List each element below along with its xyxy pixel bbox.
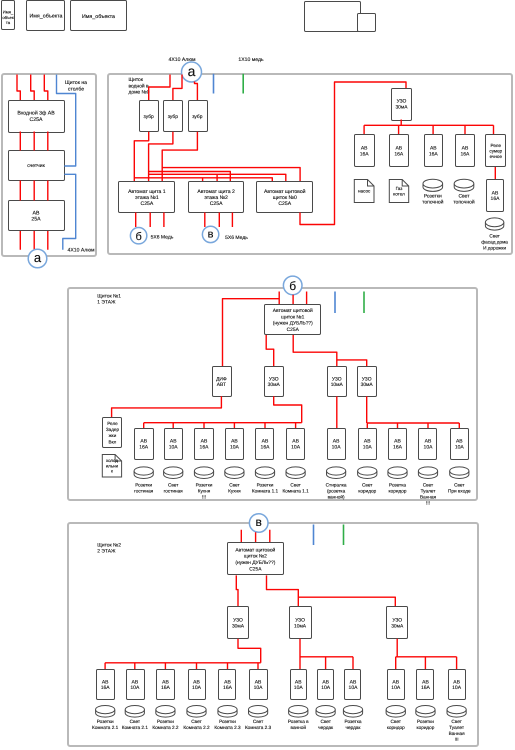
svg-text:10А: 10А <box>424 444 434 450</box>
load Розетки Комната 2.1 floor2 <box>92 706 119 731</box>
svg-text:Щиток №2: Щиток №2 <box>97 542 121 548</box>
load Розетки гостиная floor1 <box>134 467 154 494</box>
svg-text:в: в <box>208 228 214 240</box>
label: Щиток на столбе <box>65 80 87 93</box>
breaker АВ 16А свет топочной <box>456 135 475 167</box>
load Свет чердак floor2 <box>316 706 335 731</box>
label: Щиток №2 2 ЭТАЖ <box>97 542 121 554</box>
svg-text:Свет: Свет <box>253 719 264 724</box>
load Свет Комната 2.3 floor2 <box>245 706 272 731</box>
svg-text:Розетка: Розетка <box>389 483 406 488</box>
wire bus L2 a <box>149 172 231 182</box>
node в (feed to floor-2 panel) <box>202 226 218 242</box>
svg-text:топочной: топочной <box>453 200 475 206</box>
panel P4 enclosure (Щиток №2 2 ЭТАЖ) <box>68 523 478 746</box>
RCD УЗО 10мА floor1 <box>328 367 347 397</box>
svg-text:16А: 16А <box>139 444 149 450</box>
wire bus L3 top <box>162 168 300 182</box>
svg-text:30мА: 30мА <box>391 623 404 629</box>
breaker АВ 16А фасад <box>487 180 504 212</box>
svg-text:УЗО: УЗО <box>392 618 402 624</box>
svg-text:!!!: !!! <box>426 501 430 506</box>
svg-text:16А: 16А <box>261 444 271 450</box>
svg-text:Щиток: Щиток <box>129 77 144 83</box>
label: 4X10 Алюм cable P2 <box>169 57 196 63</box>
svg-text:ванной): ванной) <box>328 495 345 500</box>
node в (floor-2 panel input) <box>249 514 268 533</box>
wire bus L2 b <box>149 174 286 181</box>
svg-text:1 ЭТАЖ: 1 ЭТАЖ <box>97 300 116 306</box>
breaker АВ 10А floor1 #8 <box>359 429 377 460</box>
svg-text:УЗО: УЗО <box>295 618 305 624</box>
wire tap to ДИФ АВТ <box>223 299 280 367</box>
RCD УЗО 30мА house <box>392 89 412 121</box>
load Розетки Кухня !!! floor1 <box>194 467 213 500</box>
svg-text:Ванная: Ванная <box>420 495 437 500</box>
panel P2 enclosure (Щиток водной в доме №0) <box>108 74 512 254</box>
svg-text:!!!: !!! <box>455 737 459 742</box>
wire б to QF main floor1 <box>279 292 306 305</box>
load Розетки Комната 2.3 floor2 <box>214 706 241 731</box>
svg-text:Щиток №1: Щиток №1 <box>97 293 121 299</box>
svg-text:котел: котел <box>393 191 405 196</box>
svg-text:10А: 10А <box>363 444 373 450</box>
breaker АВ 16А floor2 #3 <box>157 670 175 700</box>
load Свет При входе floor1 <box>448 467 471 494</box>
svg-text:16А: 16А <box>421 685 431 691</box>
breaker АВ 10А floor1 #6 <box>287 429 305 460</box>
svg-text:10А: 10А <box>452 685 462 691</box>
svg-text:Кухня: Кухня <box>228 489 241 494</box>
svg-text:Комната 2.1: Комната 2.1 <box>92 725 119 730</box>
wire main floor2 to RCD2/RCD3 floor2 <box>267 575 396 606</box>
wire PE stub floor-2 <box>343 525 345 546</box>
breaker QF3 Автомат щитовой щиток №0 <box>257 182 313 213</box>
svg-text:(нужен ДУБЛЬ??): (нужен ДУБЛЬ??) <box>273 321 313 327</box>
svg-text:УЗО: УЗО <box>397 99 407 105</box>
wire RCD3 floor2 out bus right group <box>396 639 457 670</box>
svg-text:16А: 16А <box>393 444 403 450</box>
svg-text:10А: 10А <box>130 685 140 691</box>
title block small rectangle <box>358 14 376 32</box>
svg-text:Свет: Свет <box>454 483 465 488</box>
svg-text:доме №0: доме №0 <box>129 90 150 96</box>
svg-text:10А: 10А <box>254 685 264 691</box>
svg-text:10А: 10А <box>455 444 465 450</box>
relay Реле Задержки Вкл <box>103 418 122 448</box>
svg-text:Розетки: Розетки <box>424 193 442 199</box>
svg-text:Стиралка: Стиралка <box>326 483 347 488</box>
breaker QF2 Автомат щита 2 <box>189 182 244 213</box>
svg-text:фасад дома: фасад дома <box>481 240 508 245</box>
svg-text:30мА: 30мА <box>232 623 245 629</box>
svg-text:16А: 16А <box>360 151 370 157</box>
svg-text:10А: 10А <box>192 685 202 691</box>
wire phase L1 pole panel <box>17 75 20 250</box>
svg-text:гостиная: гостиная <box>164 489 184 494</box>
node б (feed to floor-1 panel) <box>130 228 146 244</box>
svg-text:Кухня: Кухня <box>198 489 211 494</box>
svg-text:30мА: 30мА <box>395 104 408 110</box>
breaker АВ 10А floor1 #4 <box>226 429 244 460</box>
svg-text:гостиная: гостиная <box>134 489 154 494</box>
svg-text:Свет: Свет <box>451 719 462 724</box>
svg-text:а: а <box>188 63 196 79</box>
svg-text:жки: жки <box>109 433 117 438</box>
breaker АВ 10А floor1 #2 <box>165 429 183 460</box>
wire RCD3 out bus floor1 right group <box>367 396 460 428</box>
svg-text:Свет: Свет <box>168 483 179 488</box>
svg-text:С25А: С25А <box>249 567 262 573</box>
svg-text:АВТ: АВТ <box>217 382 226 388</box>
wire main floor1 to RCD2/RCD3 <box>293 335 367 367</box>
wire RCD2 (УЗО10) to Стиралка breaker <box>336 396 338 428</box>
breaker АВ 16А насос <box>355 135 375 167</box>
svg-text:Имя_объекта: Имя_объекта <box>29 14 62 20</box>
wire main floor2 to RCD1 floor2 <box>236 575 238 606</box>
breaker АВ 10А floor1 #10 <box>419 429 437 460</box>
node a (house input) <box>182 62 202 82</box>
svg-text:к: к <box>111 468 113 473</box>
wire a to surge relay 1 <box>149 75 170 101</box>
svg-text:С25А: С25А <box>141 201 154 207</box>
svg-text:Комната 1.1: Комната 1.1 <box>252 489 279 494</box>
svg-text:Свет: Свет <box>229 483 240 488</box>
load Свет фасад дома И дорожки <box>481 218 508 251</box>
label: Щиток №1 1 ЭТАЖ <box>97 293 121 305</box>
surge relay V1 зубр <box>140 101 159 132</box>
svg-text:С25А: С25А <box>287 327 300 333</box>
panel P1 enclosure (Щиток на столбе) <box>2 74 96 256</box>
svg-text:16А: 16А <box>101 685 111 691</box>
relay Реле сумеречное <box>486 135 506 167</box>
svg-text:АВ: АВ <box>33 211 40 217</box>
svg-text:Туалет: Туалет <box>421 489 437 494</box>
load Розетка чердак floor2 <box>343 706 362 731</box>
svg-text:сумер: сумер <box>489 148 502 153</box>
breaker АВ 10А floor2 #8 <box>318 670 334 700</box>
surge relay V3 зубр <box>189 101 208 132</box>
svg-text:30мА: 30мА <box>361 382 374 388</box>
wire RCD house out bus <box>364 120 493 135</box>
label: 4X10 Алюм cable P1 <box>68 248 95 254</box>
breaker АВ 16А floor1 #3 <box>195 429 214 460</box>
svg-text:та: та <box>6 20 11 25</box>
breaker АВ 16А floor2 #5 <box>219 670 236 700</box>
breaker main floor2 Автомат щитовой щиток №2 <box>228 543 284 575</box>
legend box 2 (Имя_объекта) <box>27 1 65 31</box>
svg-text:Комната 2.2: Комната 2.2 <box>183 725 210 730</box>
svg-text:10А: 10А <box>332 444 342 450</box>
svg-text:насос: насос <box>358 189 371 194</box>
surge relay V2 зубр <box>164 101 183 132</box>
svg-text:чердак: чердак <box>346 725 362 730</box>
svg-text:УЗО: УЗО <box>233 618 243 624</box>
svg-text:!!!: !!! <box>202 495 206 500</box>
svg-text:10А: 10А <box>391 685 401 691</box>
svg-text:Свет: Свет <box>391 719 402 724</box>
svg-text:столбе: столбе <box>68 86 84 92</box>
breaker АВ 16А floor2 #1 <box>97 670 115 700</box>
svg-text:Комната 2.1: Комната 2.1 <box>122 725 149 730</box>
wire a to surge relay 2 <box>173 75 182 101</box>
svg-text:Розетки: Розетки <box>135 483 152 488</box>
svg-text:зубр: зубр <box>144 114 154 120</box>
svg-text:Свет: Свет <box>362 483 373 488</box>
svg-text:10А: 10А <box>169 444 179 450</box>
legend box 1 (Имя_объекта) <box>2 1 15 30</box>
load Розетка в ванной floor2 <box>288 706 309 731</box>
RCD-breaker ДИФ АВТ <box>213 367 232 397</box>
svg-text:коридор: коридор <box>387 725 405 730</box>
svg-text:Комната 2.3: Комната 2.3 <box>245 725 272 730</box>
svg-text:16А: 16А <box>223 685 233 691</box>
wire neutral N pole panel lower <box>63 174 76 250</box>
breaker QF0 Входной 3ф АВ С25А <box>9 101 65 133</box>
svg-text:Комната 1.1: Комната 1.1 <box>283 489 310 494</box>
breaker АВ 10А floor1 #11 <box>451 429 469 460</box>
load Свет коридор floor1 <box>358 467 377 494</box>
load Розетки Комната 2.2 floor2 <box>152 706 179 731</box>
svg-text:Имя_объекта: Имя_объекта <box>82 14 115 20</box>
svg-text:Свет: Свет <box>458 193 470 199</box>
wire RCD1 out to bus floor1 left <box>274 396 302 422</box>
load Газ котел (gas boiler) <box>389 180 408 203</box>
load Розетки коридор floor2 <box>416 706 435 731</box>
load Свет Кухня floor1 <box>225 467 244 494</box>
svg-text:Розетки: Розетки <box>97 719 114 724</box>
svg-text:объек: объек <box>2 15 14 20</box>
load Свет Комната 1.1 floor1 <box>283 467 310 494</box>
svg-text:Ванная: Ванная <box>449 731 466 736</box>
svg-text:16А: 16А <box>200 444 210 450</box>
breaker АВ 10А floor2 #6 <box>250 670 268 700</box>
wire neutral N pole panel upper <box>57 75 76 167</box>
svg-text:Свет: Свет <box>130 719 141 724</box>
svg-text:30мА: 30мА <box>268 382 281 388</box>
svg-text:УЗО: УЗО <box>362 376 372 382</box>
label: 5X6 Медь at б <box>151 234 174 240</box>
svg-text:2 ЭТАЖ: 2 ЭТАЖ <box>97 549 116 555</box>
svg-text:б: б <box>289 279 296 293</box>
svg-text:5Х6 Медь: 5Х6 Медь <box>225 235 248 241</box>
node a (pole panel outlet) <box>28 249 47 268</box>
svg-text:25А: 25А <box>31 217 41 223</box>
wire QF1 feeder stubs <box>136 213 164 228</box>
wire a to surge relay 3 <box>195 82 198 101</box>
wire V2 out to bus L2 <box>149 132 173 182</box>
svg-text:ДИФ: ДИФ <box>216 376 227 382</box>
svg-text:Розетки: Розетки <box>157 719 174 724</box>
svg-text:10мА: 10мА <box>331 382 344 388</box>
wire ДИФ АВТ to Реле задержки <box>112 396 222 417</box>
svg-text:Щиток на: Щиток на <box>65 80 87 86</box>
svg-text:Свет: Свет <box>423 483 434 488</box>
load Розетки топочной <box>422 179 444 205</box>
breaker АВ 10А floor2 #4 <box>189 670 206 700</box>
load Стиралка (розетка ванной) floor1 <box>326 467 347 500</box>
svg-text:5Х6 Медь: 5Х6 Медь <box>151 234 174 240</box>
wire V3 out to bus L3 <box>162 132 197 182</box>
svg-text:Входной 3ф АВ: Входной 3ф АВ <box>17 110 55 116</box>
wire dusk relay to АВ16А <box>494 167 496 180</box>
svg-text:4X10 Алюм: 4X10 Алюм <box>68 248 95 254</box>
svg-text:Розетка: Розетка <box>345 719 362 724</box>
svg-text:Розетки: Розетки <box>417 719 434 724</box>
breaker QF1 Автомат щита 1 <box>119 182 175 213</box>
svg-text:чердак: чердак <box>318 725 334 730</box>
svg-text:Автомат щитовой: Автомат щитовой <box>273 308 313 314</box>
svg-text:Автомат щитовой: Автомат щитовой <box>235 547 275 553</box>
svg-text:ечное: ечное <box>490 154 503 159</box>
svg-text:С25А: С25А <box>278 201 291 207</box>
panel P3 enclosure (Щиток №1 1 ЭТАЖ) <box>68 288 477 500</box>
svg-text:При входе: При входе <box>448 489 471 494</box>
wire QF3 to RCD house <box>300 82 406 225</box>
load Свет топочной <box>453 179 475 205</box>
wire distribution bus floor1 left group <box>144 423 302 429</box>
svg-text:10А: 10А <box>349 685 359 691</box>
breaker АВ 10А floor2 #12 <box>449 670 466 700</box>
load насос (pump) <box>354 180 374 203</box>
svg-text:(розетка: (розетка <box>327 489 346 494</box>
breaker АВ 16А газ котел <box>390 135 409 167</box>
svg-text:Задер: Задер <box>106 427 120 432</box>
breaker АВ 10А floor1 #7 <box>328 429 346 460</box>
svg-text:Розетки: Розетки <box>219 719 236 724</box>
svg-text:Розетки: Розетки <box>196 483 213 488</box>
load Свет Туалет Ванная !!! floor1 <box>418 467 437 506</box>
RCD УЗО 30мА floor1 left <box>265 367 284 397</box>
svg-text:10А: 10А <box>230 444 240 450</box>
breaker main floor1 Автомат щитовой щиток №1 <box>265 305 321 335</box>
breaker АВ 16А розетки топочной <box>425 135 443 167</box>
svg-text:топочной: топочной <box>422 200 444 206</box>
wire PE stub floor-1 <box>363 292 365 314</box>
wire N stub floor-2 <box>313 525 315 546</box>
load Свет Комната 2.1 floor2 <box>122 706 149 731</box>
breaker АВ 10А floor2 #9 <box>345 670 361 700</box>
svg-text:10мА: 10мА <box>294 623 307 629</box>
svg-text:16А: 16А <box>394 151 404 157</box>
svg-text:а: а <box>34 250 42 265</box>
breaker АВ 16А floor1 #9 <box>389 429 407 460</box>
wire QF2 feeder stubs <box>205 213 233 228</box>
svg-text:1X10 медь: 1X10 медь <box>238 57 264 63</box>
wire N stub house input <box>213 74 215 94</box>
svg-text:УЗО: УЗО <box>332 376 342 382</box>
svg-text:Комната 2.2: Комната 2.2 <box>152 725 179 730</box>
svg-text:С25А: С25А <box>210 201 223 207</box>
svg-text:Свет: Свет <box>489 234 500 239</box>
breaker АВ 25А <box>9 201 65 231</box>
svg-text:С25А: С25А <box>30 117 44 123</box>
wire в to QF main floor2 <box>241 530 269 543</box>
svg-text:коридор: коридор <box>389 489 407 494</box>
load Свет Комната 2.2 floor2 <box>183 706 210 731</box>
wire phase L3 pole panel <box>44 75 48 250</box>
RCD УЗО 30мА floor1 right <box>358 367 377 397</box>
label: 1X10 медь cable P2 <box>238 57 264 63</box>
svg-text:Реле: Реле <box>107 421 118 426</box>
svg-text:16А: 16А <box>491 196 501 202</box>
label: 5X6 Медь at в <box>225 235 248 241</box>
svg-text:Туалет: Туалет <box>449 725 465 730</box>
wire bus L1 bottom <box>134 178 272 182</box>
legend box 3 (Имя_объекта) <box>71 1 127 31</box>
label: Щиток водной в доме №0 <box>129 77 150 96</box>
breaker АВ 10А floor2 #10 <box>388 670 405 700</box>
load Свет коридор floor2 <box>386 706 405 731</box>
svg-text:Свет: Свет <box>290 483 301 488</box>
wire PE stub house input <box>242 74 244 94</box>
load холодильник (fridge) <box>102 455 121 478</box>
svg-text:Газ: Газ <box>396 186 403 191</box>
svg-text:ванной: ванной <box>291 725 307 730</box>
svg-text:счетчик: счетчик <box>27 163 45 169</box>
svg-text:в: в <box>256 515 262 529</box>
load Свет гостиная floor1 <box>164 467 184 494</box>
node б (floor-1 panel input) <box>283 276 302 295</box>
wire RCD2 floor2 out bus middle group <box>300 639 353 670</box>
breaker АВ 10А floor2 #2 <box>127 670 145 700</box>
svg-text:16А: 16А <box>460 151 470 157</box>
RCD УЗО 10мА floor2 <box>290 607 312 639</box>
svg-text:б: б <box>135 231 141 243</box>
svg-text:Комната 2.3: Комната 2.3 <box>214 725 241 730</box>
svg-text:Имя_: Имя_ <box>3 9 14 14</box>
svg-text:(нужен ДУБЛЬ??): (нужен ДУБЛЬ??) <box>235 560 275 566</box>
load Розетка коридор floor1 <box>388 467 407 494</box>
wire V1 out to bus L1 <box>134 132 148 182</box>
load Розетки Комната 1.1 floor1 <box>252 467 279 494</box>
wire phase L2 pole panel <box>31 75 35 250</box>
svg-text:коридор: коридор <box>358 489 376 494</box>
svg-text:16А: 16А <box>161 685 171 691</box>
svg-text:Розетки: Розетки <box>257 483 274 488</box>
svg-text:Розетка в: Розетка в <box>288 719 309 724</box>
svg-text:10А: 10А <box>321 685 331 691</box>
svg-text:16А: 16А <box>429 151 439 157</box>
svg-text:водной в: водной в <box>129 83 150 89</box>
svg-text:10А: 10А <box>294 685 304 691</box>
svg-text:10А: 10А <box>291 444 301 450</box>
breaker АВ 16А floor2 #11 <box>417 670 434 700</box>
svg-text:зубр: зубр <box>168 114 178 120</box>
wire main floor1 to RCD1 <box>266 335 274 367</box>
svg-text:Свет: Свет <box>320 719 331 724</box>
RCD УЗО 30мА floor2 left <box>228 607 249 639</box>
svg-text:Реле: Реле <box>491 143 502 148</box>
svg-text:Вкл: Вкл <box>109 439 117 444</box>
svg-text:щиток №1: щиток №1 <box>281 314 304 320</box>
svg-text:Свет: Свет <box>191 719 202 724</box>
breaker АВ 16А floor1 #5 <box>256 429 274 460</box>
RCD УЗО 30мА floor2 right <box>387 607 408 639</box>
breaker АВ 16А floor1 #1 <box>135 429 154 460</box>
svg-text:щиток №2: щиток №2 <box>244 554 267 560</box>
load Свет Туалет Ванная !!! floor2 <box>447 706 466 743</box>
title block large rectangle <box>305 2 361 32</box>
wire N stub floor-1 <box>334 292 336 314</box>
svg-text:УЗО: УЗО <box>269 376 279 382</box>
svg-text:зубр: зубр <box>192 114 202 120</box>
svg-text:И дорожки: И дорожки <box>483 246 506 251</box>
breaker АВ 10А floor2 #7 <box>291 670 307 700</box>
svg-text:коридор: коридор <box>417 725 435 730</box>
meter счетчик <box>9 151 65 181</box>
wire RCD1 floor2 out bus left group <box>105 639 261 670</box>
